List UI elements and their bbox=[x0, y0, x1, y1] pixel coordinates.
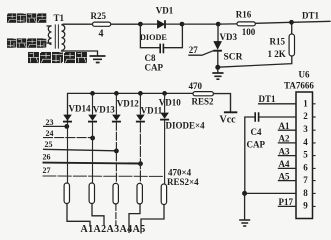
wire R15 bottom to node D bbox=[218, 56, 292, 67]
svg-text:4: 4 bbox=[99, 29, 104, 40]
wire bus to VD12 bbox=[115, 93, 117, 114]
wire DT1 to pin 1 bbox=[258, 103, 296, 105]
svg-text:T1: T1 bbox=[54, 13, 65, 23]
bus junction dot col2 bbox=[90, 91, 95, 96]
diode VD10 bbox=[160, 113, 169, 120]
svg-text:26: 26 bbox=[43, 153, 51, 162]
svg-text:SCR: SCR bbox=[224, 53, 243, 63]
wire node C to R16 bbox=[218, 23, 237, 25]
wire bus to VD11 bbox=[139, 93, 141, 114]
diode VD12 bbox=[112, 115, 121, 122]
numbered line 23 bbox=[43, 125, 67, 127]
svg-text:6: 6 bbox=[303, 162, 308, 172]
resistor RES2 body bbox=[193, 92, 213, 96]
svg-text:DT1: DT1 bbox=[302, 11, 320, 21]
svg-text:VD14: VD14 bbox=[69, 104, 91, 114]
capacitor C4 bbox=[255, 112, 258, 122]
svg-text:470×4: 470×4 bbox=[168, 167, 192, 177]
wire RA1 to A1 bbox=[67, 204, 90, 227]
numbered line 27 bbox=[43, 175, 165, 177]
svg-text:VD13: VD13 bbox=[93, 105, 115, 115]
svg-text:7: 7 bbox=[303, 175, 308, 185]
column 3 vertical below VD12 bbox=[115, 122, 117, 184]
wire node E to DT1 (top) bbox=[292, 21, 331, 22]
svg-text:100: 100 bbox=[242, 27, 256, 37]
wire A3 to pin 5 bbox=[278, 155, 296, 157]
wire R25 to node A bbox=[111, 23, 141, 25]
diode VD1 bbox=[157, 20, 165, 28]
wire SCR cathode to node D bbox=[217, 51, 219, 68]
numbered line 25 bbox=[43, 149, 116, 151]
ground (IC / C4) bbox=[239, 220, 250, 226]
wire node E to R15 bbox=[291, 22, 293, 34]
IC right side pin stubs bbox=[313, 104, 316, 207]
wire P17 to pin 9 bbox=[278, 205, 296, 207]
wire node A to VD1 anode bbox=[140, 23, 157, 25]
svg-text:RES2×4: RES2×4 bbox=[167, 177, 199, 187]
node D junction dot bbox=[215, 65, 220, 70]
wire RA3 to A3 bbox=[115, 204, 117, 226]
numbered line 26 bbox=[43, 162, 141, 165]
wire RES2 to Vcc bbox=[213, 94, 230, 112]
node C junction dot bbox=[216, 22, 221, 27]
column 1 vertical below VD14 bbox=[67, 123, 69, 184]
svg-text:A1: A1 bbox=[279, 121, 290, 131]
line 25 junction dot bbox=[114, 149, 119, 154]
svg-text:9: 9 bbox=[303, 201, 308, 211]
svg-text:A4: A4 bbox=[279, 159, 290, 169]
svg-text:1 2K: 1 2K bbox=[268, 49, 286, 59]
svg-text:DT1: DT1 bbox=[259, 94, 277, 104]
svg-text:TA7666: TA7666 bbox=[284, 81, 314, 91]
svg-text:R15: R15 bbox=[270, 37, 286, 47]
transformer T1 secondary winding bbox=[62, 25, 65, 51]
numbered line 24 bbox=[43, 137, 92, 139]
resistor R16 body bbox=[237, 22, 255, 26]
svg-text:R25: R25 bbox=[91, 11, 107, 21]
svg-text:P17: P17 bbox=[279, 197, 294, 207]
svg-text:4: 4 bbox=[303, 137, 308, 147]
svg-text:CAP: CAP bbox=[247, 140, 266, 150]
wire RA2 to A2 bbox=[92, 204, 104, 227]
bus junction dot col4 bbox=[138, 91, 143, 96]
wire ground branch to pin 8 bbox=[245, 192, 296, 194]
wire transformer secondary top to R25 bbox=[62, 23, 93, 26]
wire RA4 to A4 bbox=[129, 204, 140, 233]
line 26 junction dot bbox=[138, 161, 143, 166]
svg-text:5: 5 bbox=[303, 150, 308, 160]
svg-text:CAP: CAP bbox=[145, 63, 164, 73]
svg-text:A1A2A3A4A5: A1A2A3A4A5 bbox=[81, 224, 146, 235]
resistor RA3 body bbox=[113, 183, 118, 204]
line 24 junction dot bbox=[90, 136, 95, 141]
wire from upper coil label to transformer primary bbox=[47, 25, 52, 27]
ground (transformer) bbox=[90, 56, 106, 63]
wire node B to node C bbox=[182, 23, 218, 25]
ground branch junction dot bbox=[242, 191, 247, 196]
wire A4 to pin 6 bbox=[278, 167, 296, 169]
node E junction dot bbox=[289, 20, 294, 25]
svg-text:2: 2 bbox=[303, 111, 308, 121]
wire junction to IC ground bbox=[244, 193, 246, 219]
capacitor C8 bbox=[160, 44, 163, 54]
wire A2 to pin 4 bbox=[278, 142, 296, 144]
label 感应线圈 (upper) bbox=[7, 13, 46, 22]
wire node C to SCR anode bbox=[217, 24, 219, 41]
svg-text:RES2: RES2 bbox=[192, 97, 215, 107]
svg-text:VD1: VD1 bbox=[156, 6, 174, 16]
wire R16 to node E bbox=[255, 22, 291, 23]
column 4 vertical below VD11 bbox=[139, 122, 141, 184]
thyristor VD3 SCR bbox=[213, 41, 222, 50]
transformer T1 core bbox=[55, 24, 58, 48]
wire VD1 cathode to node B bbox=[165, 23, 182, 25]
ground (SCR) bbox=[212, 73, 223, 79]
svg-text:DIODE×4: DIODE×4 bbox=[166, 121, 206, 131]
svg-text:R16: R16 bbox=[236, 10, 252, 20]
Vcc terminal bar bbox=[224, 111, 237, 113]
svg-text:U6: U6 bbox=[299, 70, 310, 80]
wire from lower coil label to transformer primary bbox=[47, 42, 52, 44]
wire A1 to pin 3 bbox=[278, 129, 296, 131]
svg-text:1: 1 bbox=[303, 98, 308, 108]
svg-text:24: 24 bbox=[46, 129, 54, 138]
wire C8 branch left side bbox=[140, 24, 159, 48]
svg-text:A2: A2 bbox=[279, 134, 290, 144]
line 23 junction dot bbox=[64, 124, 69, 129]
bus junction dot col5 bbox=[162, 91, 167, 96]
svg-text:3: 3 bbox=[303, 124, 308, 134]
wire bus to VD10 bbox=[164, 93, 166, 112]
IC U6 body bbox=[296, 92, 313, 219]
resistor R25 body bbox=[93, 22, 111, 26]
resistor RA2 body bbox=[89, 183, 94, 204]
bus junction dot col3 bbox=[114, 91, 119, 96]
diode VD14 bbox=[63, 115, 72, 122]
wire bus to VD13 bbox=[92, 93, 94, 114]
wire RA5 to A5 bbox=[141, 205, 164, 234]
svg-text:DIODE: DIODE bbox=[140, 33, 167, 42]
svg-text:C4: C4 bbox=[251, 127, 262, 137]
svg-text:A3: A3 bbox=[279, 146, 290, 156]
label 感应线圈 (lower) bbox=[7, 38, 46, 47]
wire secondary bottom to ground bbox=[62, 50, 98, 55]
svg-text:27: 27 bbox=[43, 166, 51, 175]
resistor R15 body bbox=[289, 34, 294, 56]
column 5 vertical below VD10 bbox=[164, 120, 166, 184]
resistor RA4 body bbox=[137, 183, 142, 204]
diode array top bus bbox=[68, 93, 194, 122]
node B junction dot bbox=[180, 22, 185, 27]
diode VD11 bbox=[136, 115, 145, 122]
wire C8 branch right side bbox=[164, 24, 183, 48]
label 升压变压器 bbox=[28, 52, 87, 63]
diode VD13 bbox=[88, 115, 97, 122]
resistor RA1 body bbox=[64, 183, 69, 204]
resistor RA5 body bbox=[161, 184, 166, 205]
column 2 vertical below VD13 bbox=[92, 122, 94, 183]
svg-text:Vcc: Vcc bbox=[220, 114, 237, 125]
SCR gate wire with 27 stub bbox=[188, 51, 213, 56]
node A junction dot bbox=[138, 22, 143, 27]
wire A5 to pin 7 bbox=[278, 180, 296, 182]
transformer T1 primary winding bbox=[48, 26, 51, 45]
svg-text:VD3: VD3 bbox=[220, 32, 238, 42]
svg-text:8: 8 bbox=[303, 188, 308, 198]
svg-text:A5: A5 bbox=[279, 171, 290, 181]
svg-text:470: 470 bbox=[189, 81, 203, 91]
wire pin 2 to C4 bbox=[259, 116, 296, 118]
wire node D to ground bbox=[217, 67, 219, 73]
svg-text:C8: C8 bbox=[145, 53, 156, 63]
svg-text:VD10: VD10 bbox=[159, 98, 181, 108]
svg-text:25: 25 bbox=[45, 140, 53, 149]
wire C4 to ground branch bbox=[245, 117, 255, 193]
svg-text:VD12: VD12 bbox=[117, 99, 139, 109]
svg-text:27: 27 bbox=[189, 45, 199, 55]
